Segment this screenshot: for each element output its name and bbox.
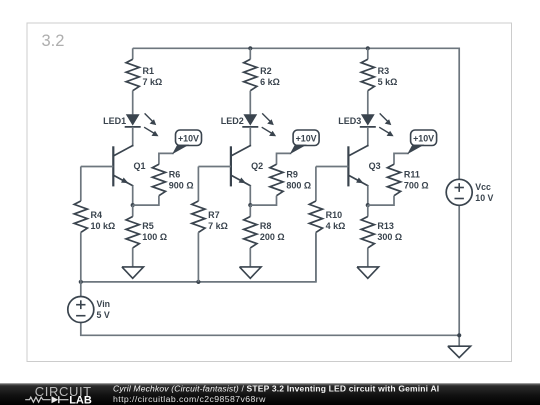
resistor R10 4 kohm bbox=[309, 201, 322, 232]
svg-text:Q2: Q2 bbox=[251, 161, 263, 171]
wire R4 bottom lead bbox=[80, 232, 82, 282]
wire R1 top lead bbox=[132, 48, 134, 59]
svg-text:R3: R3 bbox=[378, 66, 390, 76]
svg-text:R13: R13 bbox=[377, 221, 394, 231]
svg-text:+10V: +10V bbox=[178, 134, 199, 144]
svg-text:900 Ω: 900 Ω bbox=[169, 180, 194, 190]
svg-text:7 kΩ: 7 kΩ bbox=[143, 77, 163, 87]
wire R13 top lead bbox=[367, 205, 369, 217]
svg-text:R10: R10 bbox=[326, 210, 343, 220]
wire +10V flag to R9 bbox=[277, 153, 292, 164]
LED LED1 anode triangle bbox=[126, 114, 140, 125]
svg-text:R9: R9 bbox=[286, 170, 298, 180]
LED LED2 light arrow 1 bbox=[262, 113, 271, 122]
wire Q2 emitter lead bbox=[249, 186, 251, 206]
resistor R11 700 ohm bbox=[387, 164, 400, 195]
svg-text:LED3: LED3 bbox=[338, 116, 361, 126]
svg-text:R8: R8 bbox=[260, 221, 272, 231]
node base bus junction R4/Vin bbox=[79, 280, 83, 284]
ground below R8 bbox=[240, 267, 262, 278]
transistor Q1 base bar bbox=[112, 146, 114, 186]
wire R5 bottom lead bbox=[132, 248, 134, 267]
LED LED2 anode triangle bbox=[243, 114, 257, 125]
wire Q3 base bbox=[316, 166, 349, 168]
svg-text:+10V: +10V bbox=[413, 134, 434, 144]
wire R5 top lead bbox=[132, 205, 134, 217]
node top rail junction stage 2 bbox=[248, 46, 252, 50]
wire R8 top lead bbox=[249, 205, 251, 217]
svg-text:R7: R7 bbox=[208, 210, 220, 220]
resistor R3 5 kohm bbox=[361, 59, 374, 90]
ground below R13 bbox=[357, 267, 379, 278]
resistor R5 100 ohm bbox=[126, 217, 139, 248]
node bottom right junction bbox=[457, 333, 461, 337]
svg-text:Vcc: Vcc bbox=[475, 182, 491, 192]
svg-text:R2: R2 bbox=[260, 66, 272, 76]
wire Q1 emitter lead bbox=[132, 186, 134, 206]
wire R6 bottom lead to emitter node bbox=[133, 196, 159, 205]
svg-text:4 kΩ: 4 kΩ bbox=[326, 221, 346, 231]
svg-text:5 kΩ: 5 kΩ bbox=[378, 77, 398, 87]
svg-text:800 Ω: 800 Ω bbox=[286, 180, 311, 190]
svg-text:http://circuitlab.com/c2c98587: http://circuitlab.com/c2c98587v68rw bbox=[113, 394, 266, 404]
svg-text:+10V: +10V bbox=[296, 134, 317, 144]
wire LED1 cathode lead bbox=[132, 127, 134, 146]
wire R11 bottom lead to emitter node bbox=[368, 196, 394, 205]
wire R8 bottom lead bbox=[249, 248, 251, 267]
wire R1 bottom lead to LED bbox=[132, 91, 134, 115]
ground below R5 bbox=[122, 267, 144, 278]
wire R2 top lead bbox=[249, 48, 251, 59]
voltage source Vcc 10V bbox=[446, 179, 472, 205]
resistor R2 6 kohm bbox=[244, 59, 257, 90]
wire top rail (Vcc distribution) bbox=[133, 48, 460, 179]
voltage source Vin 5V bbox=[68, 297, 94, 323]
wire R7 bottom lead bbox=[197, 232, 199, 282]
ground bottom right bbox=[448, 346, 471, 357]
wire Q1 base bbox=[81, 166, 114, 168]
resistor R4 10 kohm bbox=[74, 201, 87, 232]
node base bus junction R7 bbox=[196, 280, 200, 284]
footer bar bbox=[0, 383, 540, 405]
svg-text:10 V: 10 V bbox=[475, 193, 493, 203]
wire base bus (Vin+ to R4/R7/R10) bbox=[81, 234, 316, 282]
wire R10 top lead bbox=[315, 167, 317, 202]
wire R3 top lead bbox=[367, 48, 369, 59]
wire LED3 cathode lead bbox=[367, 127, 369, 146]
wire R13 bottom lead bbox=[367, 248, 369, 267]
LED LED2 light arrow 2 bbox=[262, 127, 273, 133]
svg-text:700 Ω: 700 Ω bbox=[404, 180, 429, 190]
resistor R7 7 kohm bbox=[192, 201, 205, 232]
svg-text:R1: R1 bbox=[143, 66, 155, 76]
voltage flag +10V (Q3 stage) bbox=[411, 130, 437, 146]
wire bottom return (Vin- to Vcc-) bbox=[81, 322, 459, 335]
svg-text:Cyril Mechkov (Circuit-fantasi: Cyril Mechkov (Circuit-fantasist) / STEP… bbox=[113, 384, 439, 394]
LED LED3 cathode bar bbox=[360, 126, 376, 128]
LED LED1 light arrow 1 bbox=[145, 113, 154, 122]
node emitter junction Q3 bbox=[366, 203, 370, 207]
LED LED1 light arrow 2 bbox=[144, 127, 155, 133]
wire R3 bottom lead to LED bbox=[367, 91, 369, 115]
wire +10V flag to R11 bbox=[394, 153, 409, 164]
svg-text:R5: R5 bbox=[142, 221, 154, 231]
transistor Q2 base bar bbox=[230, 146, 232, 186]
wire Q3 emitter lead bbox=[367, 186, 369, 206]
svg-text:LED1: LED1 bbox=[103, 116, 126, 126]
resistor R1 7 kohm bbox=[126, 59, 139, 90]
voltage flag +10V (Q1 stage) bbox=[176, 130, 202, 146]
svg-text:200 Ω: 200 Ω bbox=[260, 232, 285, 242]
node emitter junction Q2 bbox=[248, 203, 252, 207]
wire R9 bottom lead to emitter node bbox=[250, 196, 276, 205]
transistor Q1 emitter with arrow bbox=[113, 175, 134, 186]
transistor Q3 base bar bbox=[347, 146, 349, 186]
LED LED2 cathode bar bbox=[242, 126, 258, 128]
resistor R13 300 ohm bbox=[361, 217, 374, 248]
resistor R6 900 ohm bbox=[152, 164, 165, 195]
wire +10V flag to R6 bbox=[159, 153, 174, 164]
svg-text:Q1: Q1 bbox=[134, 161, 146, 171]
wire R4 top lead bbox=[80, 167, 82, 202]
transistor Q2 collector bbox=[230, 145, 251, 156]
svg-text:R11: R11 bbox=[404, 170, 420, 180]
wire Vcc bottom lead bbox=[458, 205, 460, 346]
wire R10 bottom lead bbox=[315, 232, 317, 282]
svg-text:Q3: Q3 bbox=[369, 161, 381, 171]
resistor R9 800 ohm bbox=[270, 164, 283, 195]
svg-text:R6: R6 bbox=[169, 170, 181, 180]
wire Vin top lead bbox=[80, 282, 82, 297]
voltage flag +10V (Q2 stage) bbox=[293, 130, 319, 146]
wire R7 top lead bbox=[197, 167, 199, 202]
wire LED2 cathode lead bbox=[249, 127, 251, 146]
transistor Q3 collector bbox=[348, 145, 369, 156]
svg-text:10 kΩ: 10 kΩ bbox=[91, 221, 116, 231]
svg-text:R4: R4 bbox=[91, 210, 103, 220]
LED LED3 light arrow 2 bbox=[379, 127, 390, 133]
svg-text:LED2: LED2 bbox=[221, 116, 244, 126]
wire R2 bottom lead to LED bbox=[249, 91, 251, 115]
svg-text:100 Ω: 100 Ω bbox=[142, 232, 167, 242]
LED LED3 anode triangle bbox=[361, 114, 375, 125]
transistor Q2 emitter with arrow bbox=[230, 175, 251, 186]
transistor Q1 collector bbox=[113, 145, 134, 156]
svg-text:7 kΩ: 7 kΩ bbox=[208, 221, 228, 231]
resistor R8 200 ohm bbox=[244, 217, 257, 248]
svg-text:Vin: Vin bbox=[97, 299, 111, 309]
svg-text:3.2: 3.2 bbox=[42, 32, 65, 50]
node top rail junction stage 3 bbox=[366, 46, 370, 50]
svg-text:6 kΩ: 6 kΩ bbox=[260, 77, 280, 87]
CircuitLab logo circuit glyph (wire-resistor-diode) bbox=[25, 397, 50, 402]
LED LED1 cathode bar bbox=[125, 126, 141, 128]
svg-text:300 Ω: 300 Ω bbox=[377, 232, 402, 242]
LED LED3 light arrow 1 bbox=[380, 113, 389, 122]
transistor Q3 emitter with arrow bbox=[348, 175, 369, 186]
node emitter junction Q1 bbox=[131, 203, 135, 207]
svg-text:5 V: 5 V bbox=[97, 310, 110, 320]
svg-text:LAB: LAB bbox=[69, 395, 92, 405]
wire Q2 base bbox=[198, 166, 231, 168]
schematic border frame bbox=[27, 23, 512, 362]
